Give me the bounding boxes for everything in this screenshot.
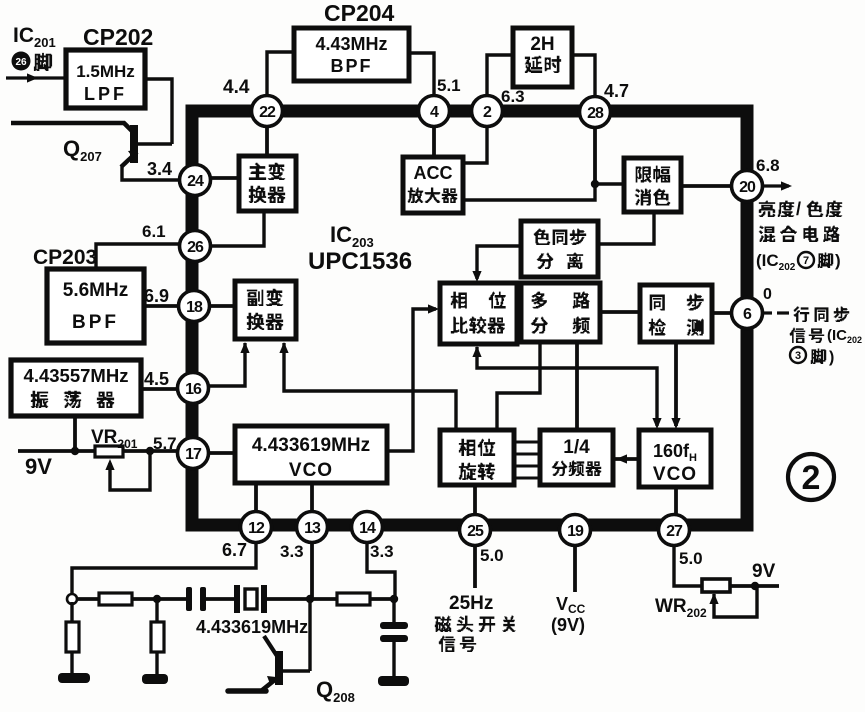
svg-text:17: 17: [185, 446, 202, 463]
wire output arrow at node 20: [761, 184, 789, 187]
svg-text:5.1: 5.1: [437, 76, 461, 95]
block 1.5MHz LPF (CP202): [66, 50, 145, 108]
node pin 20: [732, 171, 763, 202]
label 5.6MHz BPF: [63, 280, 128, 333]
wire Q207 emitter to node 24: [122, 165, 182, 180]
wire VR201 wiper: [110, 451, 150, 490]
wire VR201 to node 17: [123, 449, 193, 453]
node pin 13: [297, 512, 328, 543]
svg-text:1.5MHz: 1.5MHz: [76, 62, 135, 81]
label sub converter: [247, 289, 283, 330]
block phase comparator: [440, 283, 517, 344]
svg-text:27: 27: [666, 523, 683, 540]
svg-text:CP204: CP204: [324, 0, 395, 26]
svg-text:24: 24: [187, 173, 204, 190]
wire sync detector down to 160fH VCO: [674, 342, 678, 426]
transistor Q2O7: [121, 125, 172, 167]
node pin 4: [419, 96, 450, 127]
svg-text:6.1: 6.1: [142, 222, 166, 241]
junction dot VR201 wiper tie: [146, 447, 154, 455]
wire node 22 to 4.43MHz BPF input: [267, 52, 294, 111]
svg-text:4.7: 4.7: [604, 81, 629, 101]
IC203 outline: [192, 111, 747, 525]
wire oscillator bottom to 9V rail: [73, 416, 77, 451]
svg-text:9V: 9V: [752, 561, 776, 582]
wire dash output at node 6: [762, 311, 772, 314]
capacitor coupling: [186, 587, 192, 611]
svg-text:6.9: 6.9: [144, 286, 169, 306]
wire VCO pin to node 12: [254, 483, 258, 512]
junction dot oscillator/9V: [71, 447, 79, 455]
wire resistor to node14 leg: [370, 597, 396, 601]
svg-text:18: 18: [186, 299, 203, 316]
wire sync detector to node 6: [712, 311, 747, 315]
wire input arrow from IC201 pin to LPF: [6, 76, 66, 79]
wire node 26 to 5.6MHz BPF top: [96, 244, 195, 269]
block 4.43MHz BPF (CP204): [294, 28, 409, 81]
svg-text:6.3: 6.3: [501, 87, 525, 106]
node pin 2: [472, 96, 503, 127]
label 160fH VCO: [653, 441, 697, 485]
svg-text:20: 20: [739, 179, 756, 196]
svg-text:26: 26: [15, 57, 27, 68]
wire node 2 up to 2H delay input: [487, 55, 513, 111]
wire ACC amp output to killer block: [463, 184, 624, 200]
label horizontal sync signal: [790, 307, 862, 366]
wire node 12 down-left to tank circuit: [72, 542, 256, 594]
svg-text:4.433619MHz: 4.433619MHz: [252, 435, 370, 456]
node pin 28: [580, 97, 611, 128]
svg-text:2: 2: [483, 104, 492, 121]
node pin 26: [180, 231, 211, 262]
block phase rotator: [440, 430, 514, 485]
wire killer block to node 20: [681, 184, 747, 188]
label Vcc 9V: [551, 594, 586, 635]
wire phase rotator to sub converter pin2: [284, 343, 456, 430]
label pin 26 circled + jiao: [12, 52, 31, 71]
svg-text:9V: 9V: [25, 454, 52, 479]
wire 9V rail: [18, 449, 95, 453]
node pin 16: [178, 373, 209, 404]
wire node 14 jog down: [367, 542, 395, 600]
wire node 27 down to WR202: [674, 546, 702, 586]
svg-text:3.3: 3.3: [370, 542, 394, 561]
node pin 25: [460, 515, 491, 546]
svg-text:4.43557MHz: 4.43557MHz: [24, 365, 129, 386]
node pin 14: [352, 512, 383, 543]
block limiter color killer: [624, 158, 681, 212]
svg-text:14: 14: [359, 520, 376, 537]
ground: [58, 673, 90, 683]
block 2H delay: [513, 28, 572, 87]
svg-text:5.0: 5.0: [679, 549, 703, 568]
svg-text:ACC: ACC: [414, 163, 453, 183]
block 1/4 divider: [540, 430, 613, 485]
svg-text:4.5: 4.5: [144, 369, 169, 389]
wire second input line to Q207 base: [11, 123, 133, 132]
block 4.433619MHz VCO: [235, 426, 387, 483]
svg-text:): ): [829, 349, 834, 366]
label 1.5MHz LPF: [76, 62, 135, 104]
wire node 24 to main converter: [195, 176, 239, 180]
label main converter: [249, 163, 285, 203]
svg-text:13: 13: [304, 520, 321, 537]
svg-text:6: 6: [743, 306, 752, 323]
label 4.43MHz BPF: [315, 34, 387, 76]
wire WR202 to 9V: [730, 584, 779, 588]
junction dot at killer input: [591, 180, 599, 188]
block 4.43557MHz oscillator: [11, 360, 141, 416]
block 5.6MHz BPF (CP203): [47, 269, 144, 343]
svg-text:5.7: 5.7: [153, 434, 177, 453]
svg-text:LPF: LPF: [84, 84, 127, 104]
svg-text:5.6MHz: 5.6MHz: [63, 280, 128, 301]
node pin 24: [180, 165, 211, 196]
label phase comparator: [451, 292, 506, 334]
junction dot 9V: [751, 582, 759, 590]
svg-text:25Hz: 25Hz: [449, 593, 493, 614]
label 25Hz head switch signal: [435, 593, 516, 652]
wire to junction: [132, 597, 188, 601]
label limiter color killer: [635, 166, 670, 206]
svg-text:16: 16: [185, 381, 202, 398]
wire burst separator to phase comparator: [477, 246, 521, 279]
node pin 17: [178, 438, 209, 469]
svg-text:28: 28: [587, 105, 604, 122]
svg-text:CP203: CP203: [33, 246, 97, 269]
label burst separator: [534, 229, 586, 269]
wire node 18 to sub converter: [208, 304, 235, 308]
wire WR202 wiper: [714, 586, 757, 617]
label sync detector: [649, 294, 704, 336]
wire multi divider to 1/4 divider: [575, 342, 579, 430]
block 160fH VCO: [639, 430, 711, 487]
svg-text:7: 7: [803, 255, 809, 267]
resistor R to ground left: [66, 602, 79, 674]
label luminance/chroma mixer output: [756, 199, 842, 273]
wire VCO to phase comparator input: [387, 309, 436, 451]
label 1/4 divider: [552, 437, 601, 476]
ground: [378, 676, 409, 686]
node pin 12: [241, 512, 272, 543]
wire LPF output to Q207 collector: [145, 79, 172, 144]
wire 5.6MHz BPF to node 18: [144, 304, 194, 308]
junction dot under node 13: [306, 595, 314, 603]
node pin 18: [179, 291, 210, 322]
svg-text:VCO: VCO: [653, 464, 697, 485]
wire node 2 down to ACC amp right: [463, 111, 487, 163]
wire multi divider to phase rotator: [497, 342, 540, 430]
resistor horizontal right: [337, 593, 370, 605]
svg-text:12: 12: [248, 520, 265, 537]
wire node 4 down to ACC amp: [432, 111, 436, 157]
ground: [142, 674, 168, 684]
wire crystal to junction: [267, 597, 310, 601]
wire killer block down to burst separator: [598, 212, 654, 244]
svg-text:4: 4: [430, 104, 439, 121]
svg-text:(9V): (9V): [551, 615, 585, 635]
svg-text:3.3: 3.3: [280, 542, 304, 561]
svg-text:): ): [835, 251, 841, 270]
svg-text:25: 25: [467, 523, 484, 540]
block burst separator: [521, 221, 598, 277]
wire 160fH VCO to 1/4 divider: [613, 457, 639, 461]
label 4.433619MHz VCO: [252, 435, 370, 481]
svg-text:4.4: 4.4: [223, 77, 250, 98]
label 2H delay: [525, 34, 561, 73]
node pin 19: [560, 515, 591, 546]
crystal 4.433619MHz: [234, 585, 267, 613]
wire: [206, 597, 236, 601]
wire multi divider to sync detector: [600, 310, 640, 314]
svg-text:VCO: VCO: [289, 460, 333, 481]
wire node 22 down to main converter: [265, 111, 269, 156]
wire 160fH VCO bottom to node 27: [674, 487, 678, 518]
svg-text:/: /: [796, 199, 801, 219]
svg-text:4.433619MHz: 4.433619MHz: [196, 617, 308, 637]
wire node 17 to VCO: [208, 451, 235, 455]
node pin 22: [252, 96, 283, 127]
node pin 6: [732, 298, 763, 329]
svg-text:6.7: 6.7: [222, 540, 247, 560]
bus lines phase rotator to 1/4 divider: [514, 442, 540, 478]
wire tank line left: [77, 597, 99, 601]
wire node 28 down to junction: [593, 112, 597, 184]
wire phase rotator bottom to node 25: [473, 485, 477, 518]
svg-text:5.0: 5.0: [480, 546, 504, 565]
block multi divider: [521, 283, 600, 342]
capacitor to ground: [380, 599, 408, 676]
svg-text:BPF: BPF: [72, 312, 119, 333]
wire 4.43MHz BPF output to node 4: [409, 53, 434, 111]
wire phase comparator bottom to 160fH VCO top: [477, 347, 657, 426]
svg-text:22: 22: [259, 104, 276, 121]
svg-text:BPF: BPF: [331, 56, 373, 76]
label 4.43557MHz oscillator: [24, 365, 129, 408]
junction dot: [390, 595, 398, 603]
resistor R horizontal: [99, 593, 132, 605]
block sync detector: [640, 285, 712, 342]
svg-text:2H: 2H: [530, 34, 554, 55]
terminal circle: [67, 594, 77, 604]
svg-text:4.43MHz: 4.43MHz: [315, 34, 387, 54]
block sub converter: [235, 281, 296, 339]
junction dot: [153, 595, 161, 603]
wire 2H delay output to node 28: [572, 55, 595, 112]
svg-text:1/4: 1/4: [563, 437, 590, 458]
svg-text:6.8: 6.8: [756, 156, 780, 175]
label phase rotator: [459, 439, 495, 480]
label multi divider: [531, 292, 590, 334]
wire node 25 down: [473, 546, 477, 588]
svg-text:2: 2: [802, 459, 821, 497]
svg-text:19: 19: [567, 523, 584, 540]
svg-text:0: 0: [763, 286, 772, 303]
wire node 16 to sub converter pin1: [195, 343, 245, 386]
svg-text:UPC1536: UPC1536: [308, 248, 412, 275]
figure number 2 circled: [788, 454, 834, 500]
resistor WR202: [702, 579, 730, 592]
transistor Q208: [228, 599, 310, 691]
wire oscillator to node 16: [141, 387, 193, 391]
wire node 19 down: [573, 546, 577, 592]
wire node 13 down: [310, 542, 314, 597]
block ACC amplifier: [403, 157, 463, 213]
svg-text:3: 3: [795, 350, 801, 362]
wire main converter to node 26: [195, 211, 264, 246]
node pin 27: [659, 515, 690, 546]
block main converter: [239, 156, 296, 211]
svg-text:3.4: 3.4: [147, 159, 172, 179]
resistor VR201: [95, 446, 123, 457]
wire VCO pin to node 13: [310, 483, 314, 512]
resistor R to ground mid: [151, 599, 164, 675]
svg-text:CP202: CP202: [83, 24, 153, 50]
label IC203 UPC1536: [308, 222, 412, 275]
svg-text:26: 26: [187, 239, 204, 256]
wire junction right: [310, 597, 337, 601]
label ACC amplifier: [408, 163, 457, 203]
